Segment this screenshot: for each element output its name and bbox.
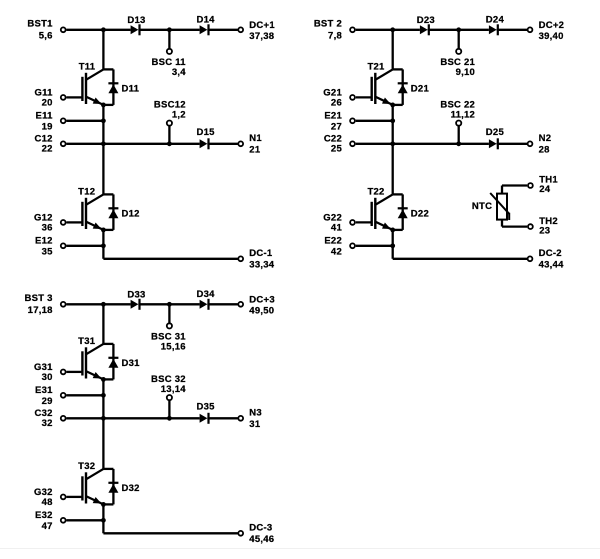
svg-text:47: 47 [42, 521, 53, 532]
svg-text:D11: D11 [122, 83, 140, 94]
svg-text:26: 26 [331, 97, 342, 108]
svg-text:D23: D23 [417, 15, 435, 26]
svg-text:N3: N3 [249, 408, 262, 419]
svg-text:T21: T21 [367, 61, 385, 72]
svg-text:T11: T11 [79, 61, 96, 72]
svg-text:30: 30 [42, 372, 53, 383]
svg-text:29: 29 [42, 396, 53, 407]
svg-text:D22: D22 [411, 208, 429, 219]
svg-text:48: 48 [42, 497, 53, 508]
svg-text:E12: E12 [35, 236, 53, 247]
svg-text:BST 3: BST 3 [25, 293, 53, 304]
svg-text:42: 42 [331, 246, 342, 257]
svg-text:T22: T22 [367, 186, 384, 197]
svg-text:49,50: 49,50 [249, 306, 274, 317]
svg-text:11,12: 11,12 [451, 110, 476, 121]
svg-text:DC+1: DC+1 [249, 20, 275, 31]
svg-text:24: 24 [539, 184, 551, 195]
svg-text:35: 35 [42, 246, 54, 257]
svg-text:43,44: 43,44 [539, 259, 564, 270]
svg-text:28: 28 [539, 144, 550, 155]
svg-text:D14: D14 [197, 15, 216, 26]
svg-text:36: 36 [42, 222, 53, 233]
svg-text:DC-3: DC-3 [249, 523, 272, 534]
svg-text:DC+3: DC+3 [249, 295, 275, 306]
svg-text:E22: E22 [324, 236, 342, 247]
svg-text:32: 32 [42, 418, 53, 429]
svg-text:N2: N2 [539, 133, 552, 144]
svg-text:5,6: 5,6 [39, 31, 53, 42]
svg-text:15,16: 15,16 [161, 342, 186, 353]
svg-text:D35: D35 [197, 402, 216, 413]
svg-text:17,18: 17,18 [28, 305, 53, 316]
svg-text:7,8: 7,8 [328, 31, 342, 42]
svg-text:T12: T12 [78, 186, 95, 197]
svg-text:D13: D13 [127, 15, 145, 26]
svg-text:T31: T31 [78, 336, 96, 347]
svg-text:3,4: 3,4 [172, 67, 186, 78]
svg-text:DC-2: DC-2 [539, 248, 562, 259]
svg-text:9,10: 9,10 [456, 67, 476, 78]
svg-text:D12: D12 [122, 208, 140, 219]
svg-text:13,14: 13,14 [161, 384, 186, 395]
svg-text:D32: D32 [122, 483, 140, 494]
svg-text:37,38: 37,38 [249, 31, 274, 42]
svg-text:33,34: 33,34 [249, 259, 274, 270]
svg-text:E32: E32 [35, 510, 53, 521]
svg-text:D24: D24 [486, 15, 505, 26]
svg-text:D31: D31 [122, 358, 141, 369]
svg-text:D25: D25 [486, 127, 505, 138]
svg-text:N1: N1 [249, 133, 262, 144]
svg-text:31: 31 [249, 419, 261, 430]
svg-text:BST 2: BST 2 [314, 19, 342, 30]
svg-text:23: 23 [539, 226, 550, 237]
svg-text:41: 41 [331, 222, 343, 233]
svg-text:27: 27 [331, 121, 342, 132]
svg-text:D34: D34 [197, 289, 216, 300]
svg-text:19: 19 [42, 121, 53, 132]
svg-text:20: 20 [42, 97, 53, 108]
svg-text:45,46: 45,46 [249, 534, 274, 545]
svg-text:E31: E31 [35, 385, 53, 396]
svg-text:21: 21 [249, 144, 261, 155]
svg-text:E21: E21 [324, 111, 342, 122]
svg-text:1,2: 1,2 [172, 110, 186, 121]
svg-text:E11: E11 [36, 111, 54, 122]
svg-text:DC-1: DC-1 [249, 248, 273, 259]
svg-text:22: 22 [42, 143, 53, 154]
svg-text:D33: D33 [127, 289, 145, 300]
svg-text:D21: D21 [411, 83, 430, 94]
svg-text:D15: D15 [197, 127, 216, 138]
svg-text:DC+2: DC+2 [539, 20, 565, 31]
svg-text:BST1: BST1 [27, 19, 53, 30]
svg-text:39,40: 39,40 [539, 31, 564, 42]
svg-text:T32: T32 [78, 461, 95, 472]
svg-text:NTC: NTC [472, 201, 492, 212]
svg-text:25: 25 [331, 143, 343, 154]
